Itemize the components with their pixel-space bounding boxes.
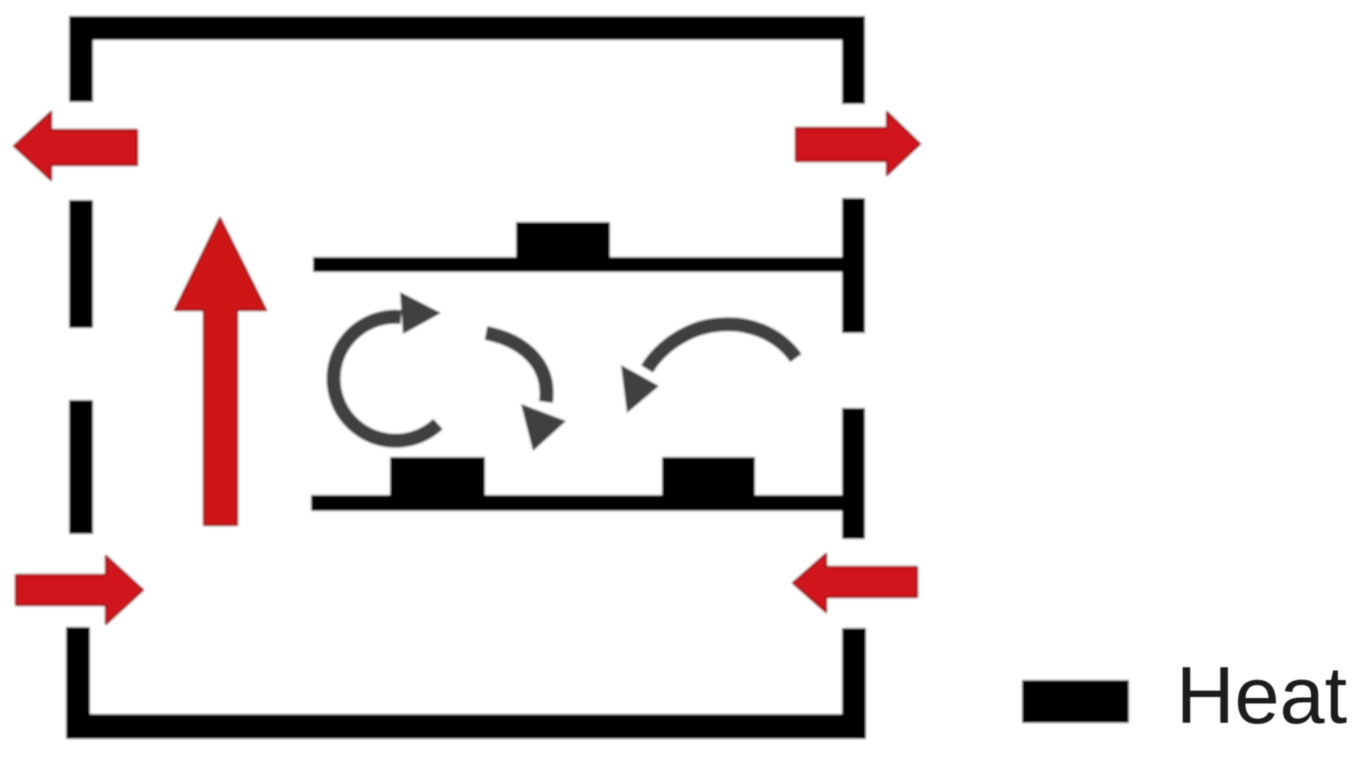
enclosure bottom wall <box>66 714 866 739</box>
heat block 2 on bottom shelf <box>662 457 755 496</box>
heat block on top shelf <box>516 222 610 258</box>
gray circulation circle arrow (left) <box>334 317 438 441</box>
red arrow up (buoyancy) <box>175 218 266 525</box>
gray over-curve arrow (right) <box>647 324 796 369</box>
right wall segment 1 (top) <box>842 16 865 104</box>
red arrow in right (bottom-left) <box>16 556 143 624</box>
red arrow in left (bottom-right) <box>793 554 917 612</box>
left wall segment 2 <box>69 200 93 328</box>
red arrow out left (top-left) <box>14 112 137 180</box>
gray over-curve arrowhead <box>621 365 659 413</box>
left wall segment 3 <box>69 400 93 534</box>
gray down-curve arrowhead <box>521 404 566 451</box>
red arrow out right (top-right) <box>796 112 920 175</box>
svg-text:Heat: Heat <box>1176 651 1347 741</box>
gray circulation circle arrowhead <box>400 292 441 334</box>
right wall segment 2 <box>842 198 865 333</box>
heat block 1 on bottom shelf <box>390 457 485 496</box>
gray down-curve arrow (middle) <box>486 333 547 402</box>
left wall segment 1 (top) <box>69 16 93 102</box>
top shelf <box>313 257 846 272</box>
right wall segment 3 <box>842 408 865 539</box>
bottom shelf <box>311 495 844 511</box>
right wall segment 4 (bottom) <box>842 628 866 739</box>
enclosure top wall <box>70 16 862 40</box>
legend heat swatch <box>1022 680 1129 723</box>
left wall segment 4 (bottom) <box>66 627 90 739</box>
